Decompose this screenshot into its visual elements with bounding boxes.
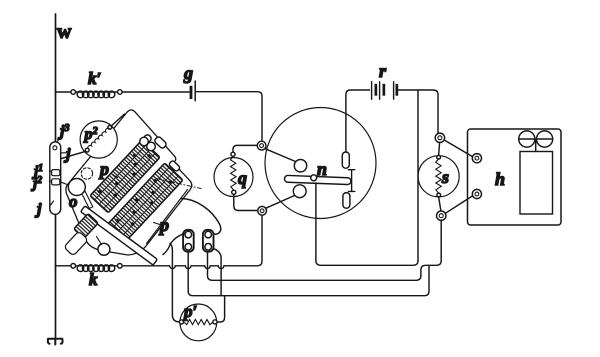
binding post left: [183, 230, 194, 252]
node (ring terminal upper): [257, 141, 266, 150]
svg-text:p: p: [98, 159, 109, 179]
pressure beam: [81, 206, 158, 265]
wire (o to contact): [60, 182, 69, 185]
svg-text:r: r: [379, 61, 387, 81]
inductor k: [118, 264, 123, 269]
wire (to battery r): [346, 90, 370, 152]
wire w (main vertical line): [55, 14, 57, 339]
wire: [56, 91, 72, 93]
node (s top ring): [435, 133, 444, 142]
resistance s: [418, 156, 459, 197]
svg-text:p′: p′: [182, 302, 197, 321]
rheostat p': [180, 304, 217, 341]
binding post right: [203, 230, 214, 252]
svg-text:h: h: [495, 169, 505, 189]
coil pole circles: [294, 160, 306, 172]
carbon pile band (lower): [106, 163, 183, 243]
contact j2: [52, 179, 60, 185]
node (ring terminal lower): [258, 206, 267, 215]
box h: [468, 129, 562, 225]
ground: [48, 339, 63, 345]
wire (s bottom to h): [445, 196, 472, 213]
svg-text:s: s: [441, 167, 449, 187]
spring assembly: [74, 214, 99, 239]
wire: [197, 92, 263, 141]
galvanometer q: [214, 158, 253, 197]
battery r: [372, 82, 394, 100]
node (ring) to coil k wire h1: [122, 215, 262, 268]
resistance p2: [80, 121, 117, 158]
wire (s bottom down, left, down, left to post): [208, 221, 442, 281]
svg-text:o: o: [69, 192, 78, 211]
svg-text:k′: k′: [88, 69, 101, 88]
motor circles: [519, 131, 535, 147]
wire (p' left up to pile): [170, 244, 179, 322]
contact j1: [52, 170, 60, 176]
wire (sweeping curve from pile to right post): [181, 199, 221, 235]
svg-text:p: p: [158, 215, 169, 235]
svg-text:n: n: [317, 159, 327, 179]
adjusting knob o: [82, 192, 93, 209]
wire (curve into left post top): [163, 233, 185, 254]
wire (q top to upper ring): [233, 145, 257, 152]
wire: [399, 90, 439, 133]
wire (p2 to frame apex): [111, 114, 124, 126]
node (h lower terminal): [472, 189, 481, 198]
svg-text:k: k: [89, 270, 98, 289]
wire (r right down): [417, 90, 419, 261]
band caps: [144, 135, 151, 142]
wire (right post bottom curve down): [213, 248, 222, 295]
leader lines: [49, 134, 66, 207]
lower contact: [343, 193, 350, 209]
armature lever: [284, 175, 351, 184]
node (h upper terminal): [472, 154, 481, 163]
wire (p' right branch): [217, 296, 225, 322]
dashed circle: [81, 168, 92, 179]
svg-text:g: g: [183, 63, 193, 83]
wire (pivot of n down and right to r): [316, 183, 418, 265]
wire (q bottom to lower ring): [234, 194, 258, 210]
wire (branch down to p' and left post): [188, 252, 429, 296]
svg-text:w: w: [57, 21, 72, 43]
key j body: [50, 142, 61, 215]
relay n circle: [265, 108, 376, 219]
contact T-bar: [348, 170, 354, 192]
inductor k': [71, 90, 76, 95]
pile outline frame: [66, 110, 192, 255]
wire: [265, 149, 296, 162]
wire (p2 to key j): [58, 151, 86, 159]
pile frame inner edge: [147, 190, 188, 244]
capacitor g: [190, 86, 193, 99]
roller circle: [98, 243, 110, 255]
node (s bottom ring): [437, 211, 446, 220]
upper contact: [342, 152, 349, 168]
center dash-dot line: [156, 179, 201, 189]
carbon pile band p (upper): [90, 140, 160, 213]
coherer cell in h: [520, 152, 553, 215]
wire (s top to h): [444, 140, 472, 157]
wire: [266, 196, 295, 209]
svg-text:q: q: [238, 168, 247, 188]
wire: [122, 91, 189, 93]
